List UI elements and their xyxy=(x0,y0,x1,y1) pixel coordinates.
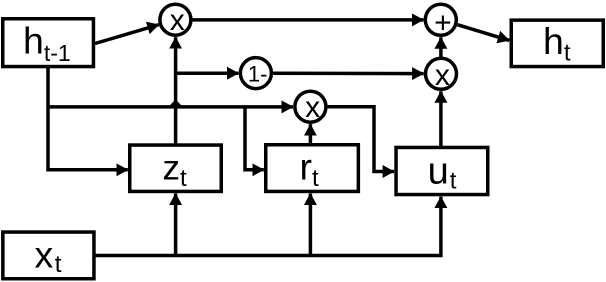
circle X3 multiply xyxy=(295,91,326,122)
wire X3 right then down into u_t xyxy=(327,107,394,172)
svg-text:1-: 1- xyxy=(248,62,268,87)
box u_t xyxy=(396,147,488,194)
box h(t-1) xyxy=(3,19,94,67)
circle plus xyxy=(425,4,456,35)
svg-text:x: x xyxy=(305,91,320,124)
wire x_t along bottom then up into u_t xyxy=(95,197,441,256)
box z_t xyxy=(130,145,222,191)
box x_t xyxy=(3,232,94,279)
wire branch down into r_t xyxy=(245,107,264,170)
wire h(t-1) diagonal into X1 xyxy=(95,25,159,44)
wire z_t up into X1 xyxy=(174,37,178,143)
wire x_t branch up into r_t xyxy=(309,194,313,256)
svg-text:+: + xyxy=(434,6,452,39)
wire u_t up into X2 xyxy=(439,91,443,146)
svg-text:x: x xyxy=(435,59,450,92)
wire 1-minus to X2 xyxy=(273,72,424,76)
box h_t xyxy=(511,20,603,66)
svg-text:x: x xyxy=(170,4,185,37)
box r_t xyxy=(266,145,359,192)
wire r_t up into X3 xyxy=(309,124,313,143)
junction arrow bump where z wire crosses h wire xyxy=(170,99,182,105)
wire h(t-1) bottom drop into z_t xyxy=(48,67,128,170)
circle 1-minus xyxy=(240,58,271,89)
wire x_t branch up into z_t xyxy=(174,194,178,256)
wire z branch into 1-minus xyxy=(176,71,239,75)
wire X1 to plus xyxy=(192,18,423,22)
circle X1 multiply xyxy=(160,4,191,35)
wire h(t-1) horizontal into X3 xyxy=(48,105,293,109)
circle X2 multiply xyxy=(426,58,457,89)
wire plus diagonal into h_t xyxy=(457,25,509,41)
wire X2 up into plus xyxy=(439,37,443,57)
